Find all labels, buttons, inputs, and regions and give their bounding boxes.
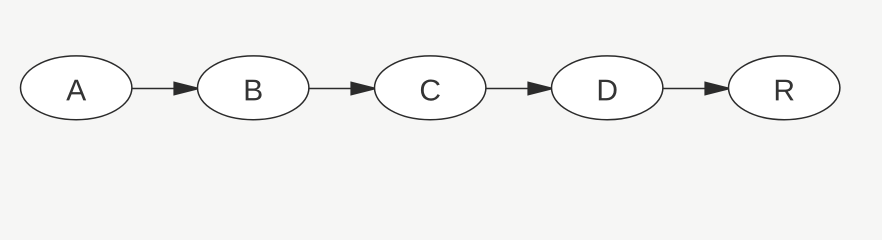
node B	[198, 56, 309, 120]
wire D to R	[663, 88, 706, 90]
arrowhead A to B	[173, 81, 201, 95]
arrowhead B to C	[350, 81, 378, 95]
wire A to B	[132, 88, 175, 90]
node C	[375, 56, 486, 120]
wire B to C	[309, 88, 352, 90]
arrowhead C to D	[527, 81, 555, 95]
arrowhead D to R	[704, 81, 732, 95]
node A	[20, 56, 131, 120]
node R	[729, 56, 840, 120]
node D	[552, 56, 663, 120]
wire C to D	[486, 88, 529, 90]
